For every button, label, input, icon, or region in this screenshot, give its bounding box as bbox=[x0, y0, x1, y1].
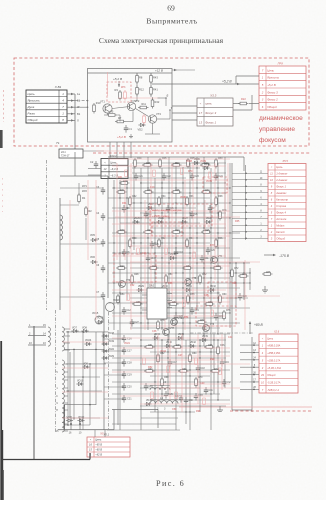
svg-text:C2: C2 bbox=[90, 160, 94, 164]
wire bbox=[224, 334, 226, 388]
wire bbox=[60, 175, 108, 177]
svg-text:C18: C18 bbox=[201, 368, 206, 370]
wire bbox=[150, 192, 226, 194]
resistor R90 bbox=[211, 310, 214, 317]
wire bbox=[192, 163, 194, 300]
transistor VT1 bbox=[103, 104, 112, 113]
svg-text:+45В,0,05А: +45В,0,05А bbox=[267, 352, 280, 355]
svg-text:+80В,0,03А: +80В,0,03А bbox=[267, 345, 280, 348]
wire bbox=[232, 409, 252, 411]
wire bbox=[132, 162, 226, 164]
diode VD36 bbox=[204, 166, 207, 169]
amplifier enclosure outer bbox=[88, 69, 173, 143]
capacitor C14 bbox=[191, 307, 193, 310]
resistor R86 bbox=[193, 252, 196, 259]
resistor R5 bbox=[109, 114, 116, 117]
diode VD12 bbox=[79, 419, 82, 422]
capacitor C21 bbox=[135, 173, 137, 176]
svg-text:R70: R70 bbox=[188, 170, 193, 173]
svg-text:В1: В1 bbox=[77, 112, 81, 116]
resistor R45 bbox=[203, 231, 210, 234]
chassis boundary bbox=[46, 160, 48, 310]
diode VD26 bbox=[158, 220, 161, 223]
wire bbox=[104, 398, 124, 400]
wire bbox=[140, 307, 250, 309]
wire bbox=[213, 334, 215, 394]
diode VD11 bbox=[68, 419, 71, 422]
svg-text:R47: R47 bbox=[120, 266, 125, 268]
svg-text:+15В,0,17А: +15В,0,17А bbox=[267, 359, 280, 362]
svg-text:R48: R48 bbox=[134, 274, 139, 276]
wire bbox=[232, 205, 268, 207]
winding L1 bbox=[60, 215, 63, 240]
wire bbox=[235, 76, 237, 84]
svg-text:R77: R77 bbox=[200, 320, 205, 322]
resistor R34 bbox=[158, 198, 161, 205]
connector XB1 bbox=[26, 90, 67, 123]
svg-text:VD8: VD8 bbox=[82, 326, 87, 329]
wire bbox=[232, 211, 268, 213]
wire bbox=[164, 210, 166, 330]
connector X5.1 bbox=[87, 437, 130, 457]
svg-text:R1: R1 bbox=[82, 196, 86, 200]
wire bbox=[83, 150, 104, 152]
svg-text:VD26: VD26 bbox=[158, 218, 164, 220]
diode VD27 bbox=[182, 220, 185, 223]
wire bbox=[249, 268, 251, 290]
svg-text:Разм.: Разм. bbox=[28, 112, 36, 116]
svg-text:Цепь: Цепь bbox=[95, 438, 102, 442]
capacitor C23 bbox=[191, 173, 193, 176]
svg-text:VD33: VD33 bbox=[154, 334, 160, 336]
resistor R36 bbox=[186, 198, 189, 205]
transistor VT8 bbox=[171, 319, 178, 326]
scan edge line bbox=[0, 341, 2, 500]
diode VD34 bbox=[178, 336, 181, 339]
wire bbox=[112, 272, 250, 274]
svg-text:C1: C1 bbox=[129, 127, 133, 131]
svg-text:VD15: VD15 bbox=[92, 312, 99, 315]
svg-text:-5,2В,0,17А: -5,2В,0,17А bbox=[267, 382, 281, 385]
resistor R1 bbox=[78, 195, 81, 202]
capacitor C18 bbox=[123, 359, 125, 362]
wire bbox=[172, 105, 197, 107]
resistor R80 bbox=[125, 170, 128, 177]
wire bbox=[74, 94, 76, 140]
resistor R10 bbox=[93, 105, 96, 112]
wire bbox=[104, 386, 124, 388]
scan edge mark bbox=[0, 130, 3, 148]
wire bbox=[140, 325, 230, 327]
svg-text:Цепь: Цепь bbox=[110, 160, 117, 164]
wire bbox=[240, 359, 259, 361]
dashed red box bbox=[203, 177, 227, 193]
junction dots bbox=[113, 162, 250, 412]
wire vertical bus left bbox=[103, 298, 105, 430]
wire bbox=[60, 187, 103, 189]
svg-text:C25: C25 bbox=[155, 244, 160, 246]
diode VD39 bbox=[202, 338, 205, 341]
wire bbox=[172, 69, 195, 71]
diode VD32 bbox=[210, 288, 213, 291]
svg-text:VT1: VT1 bbox=[100, 100, 105, 104]
svg-text:Катод: Катод bbox=[276, 230, 285, 234]
svg-text:VD31: VD31 bbox=[186, 286, 192, 288]
capacitor C24 bbox=[215, 173, 217, 176]
dashed red box bbox=[208, 282, 236, 298]
resistor R7 bbox=[117, 120, 124, 123]
svg-text:+5,2 В: +5,2 В bbox=[113, 77, 122, 81]
capacitor C15 bbox=[215, 313, 217, 316]
svg-text:R44: R44 bbox=[189, 238, 194, 240]
resistor R67 bbox=[146, 370, 153, 373]
wire tap bbox=[64, 349, 71, 351]
wire bbox=[112, 423, 176, 425]
svg-text:VD18: VD18 bbox=[108, 332, 115, 335]
svg-text:R49: R49 bbox=[152, 266, 157, 268]
diode VD29 bbox=[104, 357, 107, 360]
wire bbox=[112, 337, 226, 339]
wire stub 16 bbox=[70, 418, 72, 430]
svg-text:C32: C32 bbox=[227, 382, 232, 384]
wire bbox=[130, 359, 226, 361]
wire bbox=[62, 341, 108, 343]
resistor R26 bbox=[159, 160, 162, 167]
wire tap bbox=[64, 395, 69, 397]
svg-text:R58: R58 bbox=[168, 282, 173, 285]
svg-text:R54: R54 bbox=[184, 316, 189, 319]
wire bbox=[140, 182, 226, 184]
resistor R56 bbox=[151, 296, 154, 303]
wire bbox=[130, 142, 132, 158]
wire bbox=[109, 142, 111, 158]
svg-text:С: С bbox=[56, 395, 58, 398]
resistor R42 bbox=[158, 240, 161, 247]
svg-text:C18: C18 bbox=[127, 362, 132, 365]
wire bbox=[112, 345, 210, 347]
resistor R85 bbox=[165, 248, 168, 255]
wire bbox=[108, 242, 210, 244]
wire bbox=[150, 411, 195, 413]
svg-text:69: 69 bbox=[167, 4, 175, 13]
svg-text:VD29: VD29 bbox=[138, 286, 144, 288]
wire bbox=[235, 263, 237, 308]
capacitor C27 bbox=[180, 395, 182, 398]
resistor R47 bbox=[118, 267, 125, 270]
wire bbox=[117, 330, 119, 425]
capacitor C22 bbox=[163, 173, 165, 176]
wire tap bbox=[64, 371, 69, 373]
svg-text:VD39: VD39 bbox=[200, 160, 207, 163]
svg-text:R57: R57 bbox=[172, 302, 177, 304]
wire bbox=[130, 237, 226, 239]
svg-text:R52: R52 bbox=[202, 274, 207, 276]
svg-text:Цепь: Цепь bbox=[276, 165, 283, 169]
wire bbox=[140, 403, 230, 405]
svg-text:VD42: VD42 bbox=[190, 342, 196, 344]
svg-text:2-йнакал: 2-йнакал bbox=[275, 178, 288, 182]
capacitor C2 bbox=[95, 161, 97, 164]
resistor R88 bbox=[155, 292, 158, 299]
resistor R43 bbox=[150, 76, 153, 83]
resistor R93 bbox=[195, 358, 198, 365]
svg-text:C27: C27 bbox=[135, 322, 140, 324]
wire bbox=[144, 200, 146, 330]
diode VD40 bbox=[166, 344, 169, 347]
capacitor C17 bbox=[123, 347, 125, 350]
capacitor C12 bbox=[123, 307, 125, 310]
wire bbox=[204, 200, 206, 330]
wire bbox=[154, 178, 156, 310]
diode VD6 bbox=[92, 260, 95, 263]
wire bbox=[112, 369, 230, 371]
wire bbox=[140, 339, 226, 341]
svg-text:13: 13 bbox=[199, 120, 203, 124]
wire bbox=[118, 81, 120, 87]
transistor VT7 bbox=[163, 329, 170, 336]
wire bbox=[113, 410, 115, 430]
red rail bbox=[179, 406, 312, 408]
wire bbox=[112, 333, 230, 335]
wire bbox=[112, 292, 220, 294]
svg-text:R69: R69 bbox=[182, 369, 187, 371]
svg-text:Б: Б bbox=[167, 94, 169, 98]
capacitor C8 bbox=[123, 249, 125, 252]
resistor R81 bbox=[153, 170, 156, 177]
svg-text:R64: R64 bbox=[122, 202, 127, 205]
svg-text:R27: R27 bbox=[175, 163, 180, 165]
wire bbox=[150, 295, 280, 297]
capacitor C20 bbox=[239, 293, 241, 296]
capacitor C6 bbox=[102, 265, 104, 268]
wire bbox=[112, 393, 220, 395]
capacitor C21 bbox=[123, 395, 125, 398]
capacitor C31 bbox=[205, 387, 207, 390]
svg-text:С40: С40 bbox=[200, 382, 205, 385]
diode VD41 bbox=[146, 402, 149, 405]
svg-text:VD25: VD25 bbox=[134, 218, 140, 220]
wire bbox=[69, 352, 71, 418]
svg-text:Модул.: Модул. bbox=[276, 224, 285, 228]
svg-text:R58: R58 bbox=[190, 294, 195, 296]
wire bbox=[240, 374, 259, 376]
label -175V bbox=[264, 254, 275, 256]
diode bridge VD16 bbox=[106, 303, 115, 312]
svg-text:C22: C22 bbox=[167, 176, 172, 178]
wire bbox=[119, 180, 121, 430]
wire bbox=[168, 157, 170, 340]
svg-text:R77: R77 bbox=[210, 244, 215, 247]
transistor VT9 bbox=[119, 281, 126, 288]
svg-text:R61: R61 bbox=[118, 176, 123, 179]
svg-text:Фокус 3: Фокус 3 bbox=[205, 111, 216, 115]
capacitor C16 bbox=[123, 335, 125, 338]
svg-text:фокусом: фокусом bbox=[259, 137, 286, 144]
svg-text:R43: R43 bbox=[153, 76, 158, 80]
resistor R41 bbox=[150, 88, 153, 95]
resistor R3 bbox=[119, 92, 122, 99]
wire bbox=[130, 267, 220, 269]
wire bbox=[124, 180, 126, 260]
power rail +12V bbox=[88, 72, 173, 74]
svg-text:1-йнакал: 1-йнакал bbox=[276, 172, 288, 176]
wire bbox=[240, 366, 259, 368]
wire bbox=[150, 257, 240, 259]
resistor R76 bbox=[223, 312, 226, 319]
svg-text:С10: С10 bbox=[150, 186, 155, 189]
svg-text:R35: R35 bbox=[175, 190, 180, 192]
svg-text:VD16: VD16 bbox=[113, 299, 120, 302]
wire bbox=[232, 192, 268, 194]
diode VD25 bbox=[134, 220, 137, 223]
svg-text:R34: R34 bbox=[161, 196, 166, 198]
svg-text:Фокус 1: Фокус 1 bbox=[276, 185, 286, 189]
diode VD22 bbox=[104, 350, 107, 353]
dashed red box bbox=[114, 254, 156, 282]
diode VD5 bbox=[92, 238, 95, 241]
wire bbox=[112, 409, 158, 411]
svg-text:Аквадаг: Аквадаг bbox=[275, 191, 287, 195]
wire bbox=[108, 197, 210, 199]
capacitor C20 bbox=[123, 383, 125, 386]
svg-text:Цепь: Цепь bbox=[267, 337, 274, 340]
svg-text:R61: R61 bbox=[148, 345, 153, 347]
wire bbox=[107, 72, 109, 96]
capacitor C4 bbox=[102, 213, 104, 216]
svg-text:22 п: 22 п bbox=[61, 150, 67, 154]
wire tap bbox=[64, 430, 69, 432]
capacitor C5 bbox=[102, 239, 104, 242]
wire bbox=[185, 340, 187, 424]
wire bbox=[67, 100, 75, 102]
wire tap bbox=[64, 387, 69, 389]
svg-text:R71: R71 bbox=[214, 369, 219, 371]
resistor R72 bbox=[231, 270, 234, 277]
svg-text:R41: R41 bbox=[147, 230, 152, 232]
svg-text:КР1: КР1 bbox=[82, 184, 87, 188]
diode VD19 bbox=[104, 343, 107, 346]
wire bbox=[150, 375, 210, 377]
wire bbox=[175, 163, 177, 430]
wire bbox=[67, 93, 75, 95]
wire bbox=[89, 364, 91, 425]
dashed enclosure dynamic focus block bbox=[14, 58, 309, 146]
capacitor C27 bbox=[131, 319, 133, 322]
diode VD42 bbox=[190, 344, 193, 347]
wire bbox=[251, 337, 253, 412]
wire bbox=[160, 387, 240, 389]
svg-text:+5,2 В: +5,2 В bbox=[267, 83, 276, 87]
resistor R44 bbox=[186, 240, 189, 247]
connector XP9 bbox=[259, 66, 306, 110]
resistor R83 bbox=[209, 172, 212, 179]
wire bbox=[199, 340, 201, 412]
svg-text:R54: R54 bbox=[120, 294, 125, 296]
resistor R29 bbox=[202, 164, 209, 167]
capacitor C18 bbox=[197, 365, 199, 368]
wire bbox=[167, 334, 169, 394]
wire bbox=[108, 177, 186, 179]
svg-text:VD6: VD6 bbox=[90, 256, 95, 259]
wire bbox=[64, 404, 96, 406]
capacitor C13 bbox=[157, 309, 159, 312]
svg-text:R66: R66 bbox=[220, 345, 225, 347]
svg-text:управление: управление bbox=[259, 126, 295, 133]
resistor R97 bbox=[203, 398, 206, 405]
wire bbox=[197, 334, 199, 404]
resistor R74 bbox=[219, 212, 222, 219]
wire bbox=[112, 281, 200, 283]
svg-text:+12 В: +12 В bbox=[155, 69, 163, 73]
resistor R23 bbox=[121, 182, 128, 185]
svg-text:17: 17 bbox=[199, 111, 203, 115]
wire bbox=[112, 371, 220, 373]
svg-text:C17: C17 bbox=[127, 350, 132, 353]
wire bbox=[60, 243, 103, 245]
svg-text:Схема электрическая принципиал: Схема электрическая принципиальная bbox=[99, 36, 224, 45]
resistor R95 bbox=[151, 392, 154, 399]
resistor R65 bbox=[206, 346, 213, 349]
wire bbox=[115, 216, 240, 218]
wire bbox=[67, 119, 75, 121]
svg-text:+5,2 В: +5,2 В bbox=[222, 80, 232, 84]
wire primary feed bbox=[59, 198, 61, 310]
connector X2.6 bbox=[259, 334, 298, 393]
svg-text:VD32: VD32 bbox=[210, 286, 216, 288]
resistor R92 bbox=[167, 366, 170, 373]
svg-text:VT7: VT7 bbox=[170, 328, 175, 330]
wire bbox=[88, 168, 101, 170]
resistor R68 bbox=[161, 379, 164, 386]
svg-text:VD35: VD35 bbox=[206, 180, 213, 183]
capacitor C32 bbox=[223, 379, 225, 382]
capacitor C10 bbox=[175, 249, 177, 252]
wire bbox=[107, 113, 109, 115]
wire bbox=[112, 207, 196, 209]
svg-text:R42: R42 bbox=[155, 100, 160, 104]
svg-text:VD34: VD34 bbox=[178, 334, 184, 336]
wire bbox=[181, 334, 183, 412]
svg-text:VD44: VD44 bbox=[160, 350, 167, 353]
wire bbox=[231, 163, 233, 410]
resistor R35 bbox=[173, 191, 180, 194]
wire bbox=[120, 395, 210, 397]
svg-text:VD28: VD28 bbox=[206, 218, 212, 220]
wire bbox=[203, 157, 205, 346]
wire bbox=[73, 349, 75, 420]
wire bbox=[66, 417, 100, 419]
resistor R66 bbox=[217, 347, 220, 354]
wire bbox=[107, 429, 180, 431]
wire bbox=[221, 334, 223, 390]
capacitor C16 bbox=[145, 383, 147, 386]
wire bbox=[172, 112, 197, 114]
svg-text:VD38: VD38 bbox=[186, 160, 193, 163]
wire bbox=[108, 322, 240, 324]
svg-text:R62: R62 bbox=[160, 353, 165, 355]
wire bbox=[66, 363, 106, 365]
wire bbox=[104, 362, 124, 364]
wire bbox=[244, 260, 246, 330]
wire bbox=[132, 172, 226, 174]
resistor R53 bbox=[214, 267, 221, 270]
wire bbox=[62, 417, 108, 419]
wire bbox=[243, 157, 245, 171]
wire bbox=[112, 107, 129, 109]
wire bbox=[130, 245, 226, 247]
transistor VT2 bbox=[127, 102, 135, 110]
svg-text:C14: C14 bbox=[195, 310, 200, 312]
